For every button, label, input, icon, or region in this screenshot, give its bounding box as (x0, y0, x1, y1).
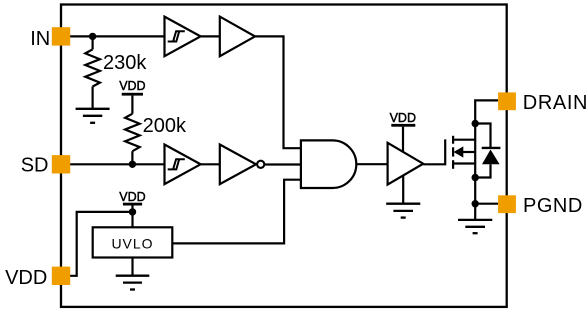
pin DRAIN (498, 92, 516, 110)
wire (201, 35, 220, 37)
node diode bottom (472, 174, 479, 181)
svg-text:230k: 230k (103, 52, 147, 74)
driver buffer U6 (388, 143, 424, 185)
node PGND junction (472, 200, 479, 207)
schmitt buffer U3 (SD) (165, 145, 201, 185)
pin PGND (498, 195, 516, 213)
node VDD junction (129, 208, 136, 215)
svg-text:SD: SD (21, 155, 49, 177)
wire inverter out to AND input 2 (264, 163, 301, 165)
wire PGND (475, 203, 498, 205)
wire VDD pin to UVLO (70, 212, 133, 276)
node diode top (472, 120, 479, 127)
pin IN (52, 27, 70, 45)
node SD junction (129, 161, 136, 168)
pin SD (52, 155, 70, 173)
wire DRAIN to FET (475, 100, 498, 219)
diode D1 body diode (475, 124, 490, 148)
wire buffer out to AND input 1 (255, 36, 301, 148)
wire UVLO out to AND input 3 (172, 180, 301, 244)
inverter U4 (SD) (220, 145, 256, 185)
svg-text:200k: 200k (143, 115, 187, 137)
svg-text:PGND: PGND (523, 195, 583, 217)
wire SD row (70, 163, 165, 165)
ground (below driver) (402, 175, 404, 204)
wire AND output (356, 163, 387, 165)
resistor R2 200k (125, 96, 140, 165)
svg-text:UVLO: UVLO (111, 235, 153, 251)
transistor Q1 power FET (453, 136, 475, 169)
schmitt buffer U1 (IN) (165, 17, 201, 57)
ground (below 230k) (76, 109, 110, 123)
wire driver out to gate (423, 139, 445, 164)
IC outline (61, 5, 507, 307)
svg-text:VDD: VDD (119, 79, 145, 93)
svg-text:DRAIN: DRAIN (523, 92, 588, 114)
svg-text:VDD: VDD (119, 190, 145, 204)
svg-text:VDD: VDD (390, 111, 416, 125)
svg-text:VDD: VDD (5, 267, 47, 289)
ground (below FET) (458, 220, 492, 233)
wire IN row (70, 35, 165, 37)
buffer U2 (IN) (220, 17, 255, 57)
wire (201, 163, 220, 165)
pin VDD (52, 267, 70, 285)
svg-text:IN: IN (30, 28, 50, 50)
ground (below UVLO) (131, 258, 133, 276)
AND gate U5 (301, 140, 356, 188)
resistor R1 230k (85, 36, 100, 108)
UVLO block (93, 227, 173, 257)
node IN junction (89, 33, 96, 40)
